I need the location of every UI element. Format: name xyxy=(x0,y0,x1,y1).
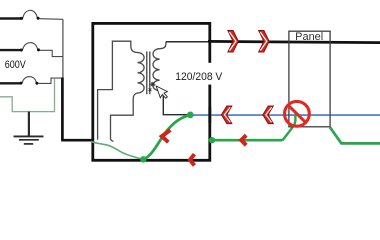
switch SW2 arc xyxy=(23,43,38,50)
wire thick feeder to transformer (horizontal) xyxy=(61,139,94,142)
svg-text:120/208 V: 120/208 V xyxy=(175,71,222,83)
current chevron on enclosure bottom xyxy=(190,154,194,165)
wire GEC green left run xyxy=(0,78,55,111)
wire EGC leaving panel (green right) xyxy=(330,127,380,143)
current chevron right 2 (phase) xyxy=(259,31,270,53)
current chevron on EGC line xyxy=(241,135,246,145)
wire phase B jog to bus xyxy=(40,50,63,56)
transformer enclosure box xyxy=(93,23,210,160)
mouse cursor icon xyxy=(156,83,169,100)
ground bar 1 xyxy=(14,135,44,137)
wire system bonding jumper (green S-curve) xyxy=(143,115,190,159)
node X0 neutral dot xyxy=(187,112,194,119)
wire prohibited neutral-ground bond at panel xyxy=(283,114,296,140)
svg-text:600V: 600V xyxy=(5,59,27,71)
switch SW3 arc xyxy=(22,77,36,83)
wire secondary X0 lead xyxy=(160,91,190,115)
ground electrode stem xyxy=(28,112,30,137)
switch SW1 contact dots xyxy=(20,17,23,20)
panel enclosure box xyxy=(289,31,330,127)
wire primary loop inside enclosure xyxy=(98,41,138,140)
switch SW2 contact dots xyxy=(20,49,23,52)
cursor sparkle xyxy=(149,82,156,91)
prohibition slash xyxy=(287,104,306,123)
wire phase C jog to bus xyxy=(38,78,62,83)
current chevron left 2 (neutral) xyxy=(263,106,274,124)
transformer T1 secondary winding xyxy=(153,42,166,91)
current chevron on bonding jumper curve xyxy=(162,130,171,142)
wire primary winding return xyxy=(111,93,138,141)
wire phase B primary (600V feeder line 2) xyxy=(0,49,21,51)
wire phase conductor to panel (thick) xyxy=(208,41,380,42)
wire thick feeder to transformer (vertical) xyxy=(61,78,64,141)
wire GEC squiggle under transformer xyxy=(91,142,143,160)
switch SW1 arc xyxy=(23,10,38,18)
wire secondary phase lead (inside box) xyxy=(166,41,209,43)
ground bar 2 xyxy=(19,139,39,141)
node EGC at enclosure dot xyxy=(209,137,215,143)
transformer T1 core xyxy=(146,52,148,95)
current chevron left 1 (neutral) xyxy=(221,106,232,124)
transformer T1 primary winding xyxy=(138,53,145,93)
ground bar 3 xyxy=(24,143,33,145)
wire phase C primary (600V feeder line 3) xyxy=(0,82,20,84)
wire phase A to bus xyxy=(40,18,63,21)
wire EGC to panel (green) xyxy=(212,139,283,142)
wire neutral conductor (blue) xyxy=(190,114,380,116)
node enclosure bond dot xyxy=(140,156,146,162)
current chevron right 1 (phase) xyxy=(228,31,239,53)
wire phase A primary (600V feeder line 1) xyxy=(0,17,21,19)
switch SW3 contact dots xyxy=(20,82,23,85)
svg-text:Panel: Panel xyxy=(295,31,323,43)
node bus vertical (primary tie) xyxy=(62,19,64,78)
wire enclosure right edge over neutral xyxy=(208,107,211,123)
label 120/208 V background patch xyxy=(173,63,224,85)
prohibition circle xyxy=(285,101,310,126)
